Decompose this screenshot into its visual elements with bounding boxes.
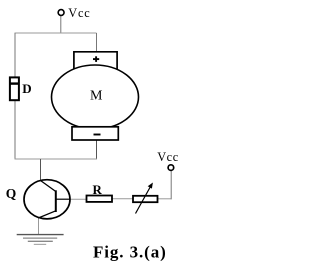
svg-text:M: M [90, 89, 103, 104]
wire: motor - terminal down to bottom junction row [96, 140, 98, 160]
svg-text:Vcc: Vcc [68, 6, 90, 20]
wire: right Vcc riser [170, 171, 172, 200]
wire: bottom horizontal junction rail [15, 158, 98, 160]
resistor R [87, 196, 113, 202]
motor M (armature ellipse) [52, 65, 139, 129]
motor - brush terminal [72, 127, 118, 140]
transistor Q base lead inside circle [56, 198, 70, 200]
transistor Q collector line [41, 181, 56, 192]
svg-text:D: D [22, 81, 31, 96]
ground [17, 235, 64, 245]
label + [93, 56, 99, 62]
potentiometer (variable resistor) [133, 183, 158, 214]
wire: collector drop from junction rail into transistor Q [40, 159, 42, 182]
svg-text:Fig. 3.(a): Fig. 3.(a) [93, 243, 167, 262]
svg-text:R: R [93, 182, 103, 197]
wire: base lead from transistor Q to resistor R [56, 198, 87, 200]
wire: potentiometer to right Vcc riser [157, 198, 172, 200]
wire: emitter lead down to ground [38, 217, 40, 235]
motor + brush terminal [74, 52, 117, 70]
wire: right drop from top rail into motor + terminal [96, 33, 98, 53]
wire: resistor R to potentiometer [112, 198, 134, 200]
Vcc terminal (right) [168, 165, 174, 171]
Vcc terminal (top) [58, 10, 64, 16]
label - [94, 134, 101, 136]
svg-text:Q: Q [6, 186, 17, 201]
svg-text:Vcc: Vcc [157, 150, 179, 164]
transistor Q (outline) [24, 180, 70, 219]
wire: top horizontal rail [15, 32, 97, 34]
transistor Q emitter line [38, 211, 56, 218]
wire: Vcc top terminal down to top rail [60, 16, 62, 34]
wire: left rail from top corner down to diode D top [14, 33, 16, 78]
wire: left rail from diode D bottom down to bottom junction [14, 100, 16, 160]
diode D [9, 77, 19, 100]
transistor Q base bar [55, 190, 57, 212]
